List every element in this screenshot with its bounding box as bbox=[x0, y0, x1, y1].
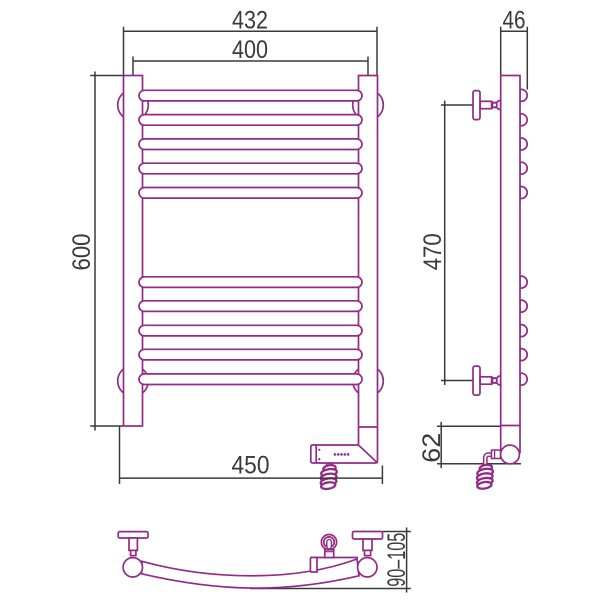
cable gland ring inner (bottom view) bbox=[324, 537, 334, 547]
post bar joint line (side) bbox=[501, 425, 520, 427]
svg-text:62: 62 bbox=[418, 433, 446, 463]
dimension 432: left extension line bbox=[123, 27, 125, 76]
power cable coil (front) bbox=[320, 464, 337, 490]
wall bracket top (side): nut circle bbox=[492, 103, 497, 108]
left wall bracket neck (bottom view) bbox=[131, 550, 136, 555]
power cable nub (front) bbox=[326, 463, 332, 466]
dimension 46: right extension line bbox=[526, 27, 528, 90]
dimension 600: top extension line bbox=[90, 75, 123, 77]
rung 7 (front) bbox=[139, 301, 362, 312]
left wall bracket stem (bottom view) bbox=[129, 538, 137, 550]
rung 1 (front) bbox=[139, 90, 362, 101]
rung 4 (front) bbox=[139, 163, 362, 174]
curved rail tube (bottom view) bbox=[142, 559, 359, 588]
wall mount rosette top-left (front) bbox=[118, 90, 149, 121]
dimension 90-105: top extension line bbox=[383, 531, 411, 533]
dimension 400: dim line bbox=[133, 60, 368, 62]
wall mount rosette top-right (front) bbox=[353, 90, 384, 121]
dimension 470: bottom extension line bbox=[441, 380, 473, 382]
post bar (side) bbox=[501, 76, 520, 453]
rung 3 (front) bbox=[139, 139, 362, 150]
dimension 90-105: dim line bbox=[406, 528, 408, 593]
wall bracket top (side): flange bbox=[473, 91, 480, 120]
BOTTOM VIEW bbox=[118, 532, 382, 589]
dimension 470: top extension line bbox=[441, 104, 473, 106]
cable gland slot (bottom view) bbox=[327, 540, 332, 549]
wall mount rosette bottom-right (front) bbox=[353, 366, 384, 397]
heater elbow miter line (front) bbox=[359, 445, 378, 463]
dimension 62: bottom extension line bbox=[437, 463, 521, 465]
heater end-cap screw bottom (front) bbox=[318, 458, 320, 460]
dimension 62: dim line bbox=[440, 422, 442, 468]
left post end circle (bottom view) bbox=[123, 558, 142, 577]
dimension 46: dim line bbox=[501, 30, 528, 32]
heater housing end cap (bottom view) bbox=[310, 558, 317, 573]
right post end circle (bottom view) bbox=[358, 558, 377, 577]
dimension 450: right extension line bbox=[381, 466, 383, 485]
wall bracket top (side): collar bbox=[492, 103, 497, 108]
wall bracket bottom (side): nut circle bbox=[492, 378, 497, 383]
wall mount rosette bottom-left (front) bbox=[118, 366, 149, 397]
power cable coil (side) bbox=[476, 464, 493, 490]
right wall bracket stem (bottom view) bbox=[363, 539, 372, 550]
svg-text:450: 450 bbox=[232, 452, 270, 480]
dimension 400: right extension line bbox=[367, 57, 369, 76]
rung 8 (front) bbox=[139, 325, 362, 336]
dimension 450: left extension line bbox=[119, 426, 121, 484]
left post (front) bbox=[124, 76, 143, 427]
svg-text:600: 600 bbox=[68, 234, 96, 271]
svg-text:432: 432 bbox=[232, 6, 268, 34]
heater indicator dots (front) bbox=[334, 453, 337, 456]
left wall bracket flange (bottom view) bbox=[118, 532, 148, 538]
rung 2 (front) bbox=[139, 115, 362, 126]
dimension 400: left extension line bbox=[132, 57, 134, 76]
svg-text:400: 400 bbox=[232, 36, 268, 64]
wall bracket bottom (side): stem bbox=[480, 377, 492, 384]
wall bracket top (side): stem bbox=[480, 101, 492, 108]
elbow tube (side) bbox=[485, 455, 492, 465]
SIDE VIEW bbox=[473, 76, 527, 464]
dimension 600: dim line bbox=[94, 72, 96, 431]
cable gland stem (bottom view) bbox=[325, 550, 334, 558]
right wall bracket flange (bottom view) bbox=[353, 532, 383, 540]
dimension 432: dim line bbox=[124, 30, 378, 32]
cable gland ring outer (bottom view) bbox=[321, 535, 336, 550]
dimension 450: dim line (drawn over coil) bbox=[120, 426, 383, 484]
dimension 62: top extension line bbox=[437, 425, 501, 427]
heater end cap circle (side) bbox=[501, 445, 520, 464]
rung 6 (front) bbox=[139, 277, 362, 288]
dimension 46: left extension line bbox=[500, 27, 502, 76]
wall bracket bottom (side): boss half-circle bbox=[496, 376, 501, 385]
dimension 470: dim line bbox=[444, 101, 446, 386]
wall bracket bottom (side): flange bbox=[473, 366, 480, 395]
svg-text:46: 46 bbox=[503, 6, 526, 34]
svg-text:470: 470 bbox=[419, 233, 447, 270]
rung 5 (front) bbox=[139, 188, 362, 199]
wall bracket bottom (side): collar bbox=[492, 378, 497, 383]
dimension 600: bottom extension line bbox=[90, 425, 123, 427]
right post with heater elbow outline (front) bbox=[311, 76, 378, 464]
right wall bracket neck (bottom view) bbox=[365, 550, 371, 555]
dimension 90-105: bottom extension line bbox=[250, 588, 411, 590]
heater end-cap screw top (front) bbox=[318, 449, 320, 451]
rung 9 (front) bbox=[139, 349, 362, 360]
right post joint line (front) bbox=[359, 426, 378, 428]
wall bracket top (side): boss half-circle bbox=[496, 100, 501, 109]
svg-text:90–105: 90–105 bbox=[383, 533, 411, 587]
rung 10 (front) bbox=[139, 374, 362, 385]
dimension 432: right extension line bbox=[376, 27, 378, 76]
rung bosses (side) bbox=[520, 89, 527, 101]
elbow fitting (side) bbox=[492, 450, 501, 458]
heater housing end-cap line (front) bbox=[315, 445, 317, 463]
heater housing top edge (bottom view) bbox=[310, 557, 358, 559]
